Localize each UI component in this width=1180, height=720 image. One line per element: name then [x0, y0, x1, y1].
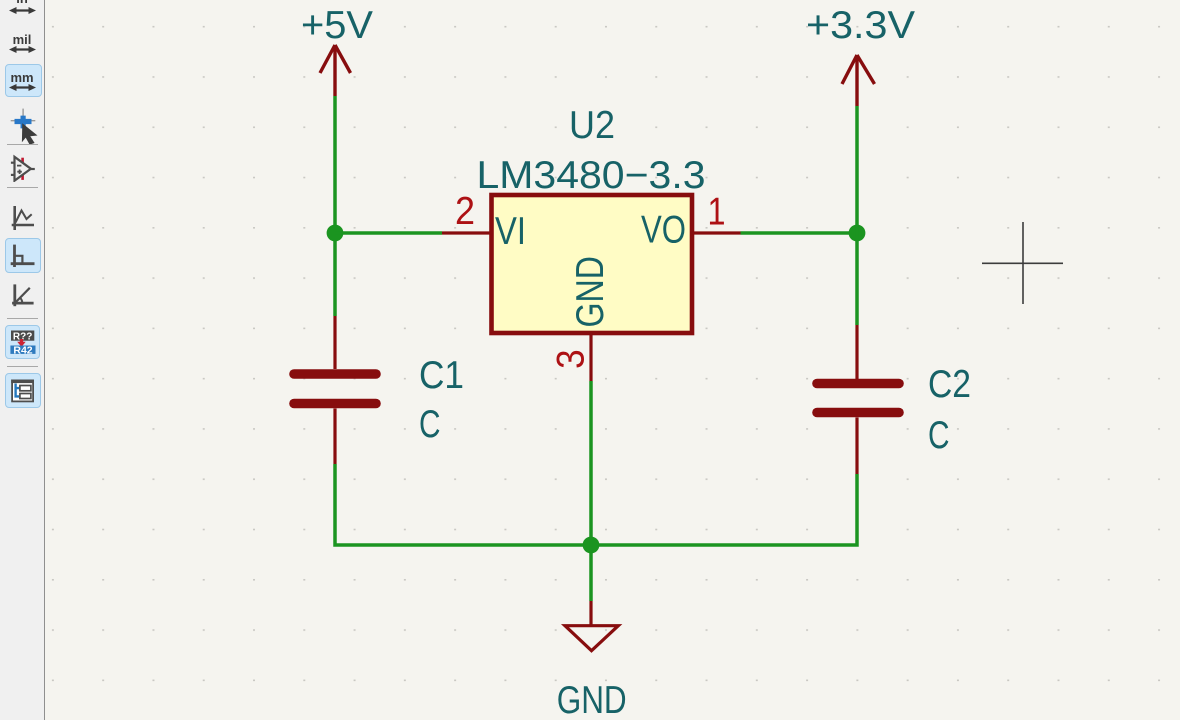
power +3.3V symbol	[842, 55, 875, 106]
toolbar button: hierarchy navigator (active)	[5, 373, 41, 408]
toolbar separator	[7, 144, 38, 145]
svg-text:C: C	[419, 403, 441, 446]
pin 2 VI lead	[442, 231, 491, 234]
svg-text:+5V: +5V	[301, 4, 373, 47]
wire +3.3V rail vertical	[855, 106, 859, 325]
toolbar button: inches unit (cut off)	[0, 0, 44, 5]
toolbar button: 45 deg wires	[9, 281, 37, 309]
pin 1 VO lead	[692, 231, 741, 234]
toolbar separator	[7, 366, 38, 367]
junction at ground node	[583, 537, 600, 554]
capacitor C2	[817, 325, 899, 474]
toolbar separator	[7, 187, 38, 188]
toolbar button: cursor shape	[4, 105, 42, 145]
svg-text:R42: R42	[13, 344, 32, 356]
wire ground bus (C1 bottom, horizontal run, C2 bottom)	[335, 464, 857, 545]
svg-text:C2: C2	[928, 363, 971, 406]
wire +5V rail vertical	[333, 96, 337, 316]
junction at VO node	[849, 225, 866, 242]
pin 3 GND lead	[589, 333, 592, 381]
svg-text:3: 3	[550, 349, 593, 369]
svg-text:2: 2	[455, 190, 475, 233]
svg-text:U2: U2	[569, 104, 615, 147]
toolbar button: 90 deg wires (active)	[5, 238, 41, 273]
svg-text:1: 1	[708, 191, 726, 234]
wire pin3 down through ground bus to GND symbol	[589, 381, 593, 601]
svg-text:GND: GND	[569, 256, 612, 328]
wire VI node to pin 2	[335, 231, 442, 235]
svg-text:LM3480−3.3: LM3480−3.3	[477, 154, 706, 197]
cursor crosshair	[982, 222, 1063, 304]
svg-text:GND: GND	[557, 679, 627, 720]
capacitor C1	[294, 316, 376, 464]
svg-text:C1: C1	[419, 354, 464, 397]
toolbar button: mil unit	[0, 33, 44, 46]
op-amp U1 regulator body U2	[492, 195, 693, 333]
toolbar button: annotate refs (R?? R42, active)	[5, 325, 40, 359]
wire pin1 to +3.3V rail	[741, 231, 858, 235]
junction at VI node	[327, 225, 344, 242]
toolbar separator	[7, 318, 38, 319]
svg-text:VI: VI	[495, 210, 526, 253]
svg-text:C: C	[928, 414, 950, 457]
power +5V symbol	[320, 45, 351, 96]
toolbar button: mm unit (active)	[5, 64, 42, 97]
toolbar button: show hidden pins (op-amp icon)	[8, 152, 37, 182]
svg-text:VO: VO	[641, 209, 686, 252]
ground symbol	[565, 601, 618, 651]
toolbar button: free angle wires	[9, 203, 37, 231]
svg-text:+3.3V: +3.3V	[806, 4, 915, 47]
